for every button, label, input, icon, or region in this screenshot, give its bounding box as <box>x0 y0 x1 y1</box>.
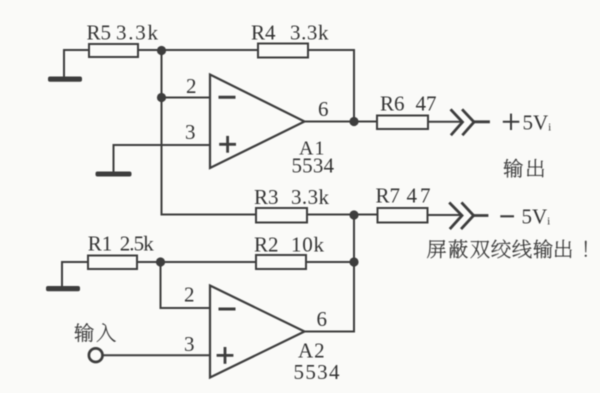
wire R1 right to R2 left <box>137 261 256 263</box>
wire input to A2 pin 3 <box>104 354 211 356</box>
resistor R2 <box>256 255 306 269</box>
svg-text:5Vi: 5Vi <box>523 111 552 135</box>
wire vertical N4 down to A2 output <box>305 215 355 332</box>
resistor R4 <box>258 44 308 58</box>
svg-text:R53.3k: R53.3k <box>87 21 159 45</box>
wire R7 right <box>428 214 461 216</box>
svg-text:R43.3k: R43.3k <box>251 21 329 45</box>
wire N6 down to A2 pin2 <box>161 262 211 308</box>
svg-text:6: 6 <box>317 307 328 331</box>
wire R3 right to node N4 <box>307 214 354 216</box>
resistor R1 <box>88 256 137 270</box>
svg-text:5534: 5534 <box>292 154 335 178</box>
resistor R5 <box>89 44 138 57</box>
wire vertical from N1 down to R3 row <box>162 51 257 215</box>
svg-text:2: 2 <box>186 74 197 98</box>
A2 minus sign <box>220 308 234 311</box>
svg-text:5534: 5534 <box>294 360 341 384</box>
svg-text:A2: A2 <box>298 339 326 363</box>
svg-text:R33.3k: R33.3k <box>254 185 330 209</box>
A2 plus sign <box>218 348 232 362</box>
connector chevron CH2 <box>450 204 487 229</box>
wire N2 to R6 <box>354 121 377 123</box>
wire R1 left <box>62 261 88 263</box>
label output +5V <box>503 114 520 130</box>
resistor R6 <box>377 116 428 130</box>
svg-text:3: 3 <box>185 120 196 144</box>
ground G2 (A1 pin3) <box>96 145 132 177</box>
resistor R3 <box>256 208 307 223</box>
A1 minus sign <box>220 96 234 99</box>
resistor R7 <box>378 208 428 223</box>
op-amp A1 <box>210 75 305 169</box>
A1 plus sign <box>221 137 235 151</box>
node N3 junction dot (A1 pin2) <box>157 93 166 102</box>
svg-text:2: 2 <box>184 283 195 307</box>
wire A1 pin 3 <box>114 144 211 146</box>
label CJK output (shu chu) top <box>504 159 544 178</box>
node N4 junction dot <box>349 210 358 219</box>
svg-text:6: 6 <box>318 97 329 121</box>
wire R5 right to R4 left <box>138 49 258 51</box>
label CJK shielded twisted-pair output! <box>427 239 587 258</box>
svg-text:R12.5k: R12.5k <box>88 232 155 256</box>
ground G1 (left of R5) <box>48 50 82 82</box>
wire R5 left <box>64 49 89 51</box>
label CJK input (shu ru) <box>75 323 116 342</box>
wire R4 right with corner down to output node <box>308 50 354 122</box>
wire A1 output <box>305 121 355 123</box>
node N1 junction dot <box>157 46 166 55</box>
svg-text:5Vi: 5Vi <box>522 205 551 229</box>
input terminal circle <box>89 348 103 362</box>
wire A1 pin 2 <box>162 97 211 99</box>
connector chevron CH1 <box>452 110 489 134</box>
op-amp A2 <box>210 286 305 378</box>
wire N4 to R7 <box>354 214 378 216</box>
wire R2 right to N5 <box>306 261 354 263</box>
node N5 junction dot (R2 right) <box>349 257 358 266</box>
ground G3 (left of R1) <box>46 262 80 291</box>
svg-text:3: 3 <box>184 332 195 356</box>
wire R6 right <box>428 121 461 123</box>
label output -5V <box>500 215 514 217</box>
node N2 junction dot (A1 output) <box>349 117 358 126</box>
node N6 junction dot <box>156 257 165 266</box>
